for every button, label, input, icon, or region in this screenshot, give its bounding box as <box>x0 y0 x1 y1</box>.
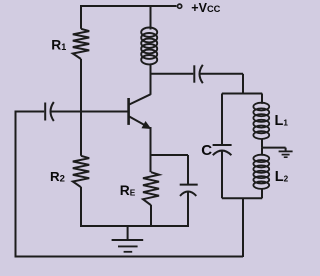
svg-text:L1: L1 <box>275 113 289 129</box>
svg-text:L2: L2 <box>275 169 289 185</box>
svg-text:R2: R2 <box>50 169 65 185</box>
svg-text:C: C <box>201 142 212 159</box>
svg-text:+VCC: +VCC <box>191 1 220 15</box>
svg-text:RE: RE <box>120 183 136 198</box>
svg-text:R1: R1 <box>51 37 66 52</box>
